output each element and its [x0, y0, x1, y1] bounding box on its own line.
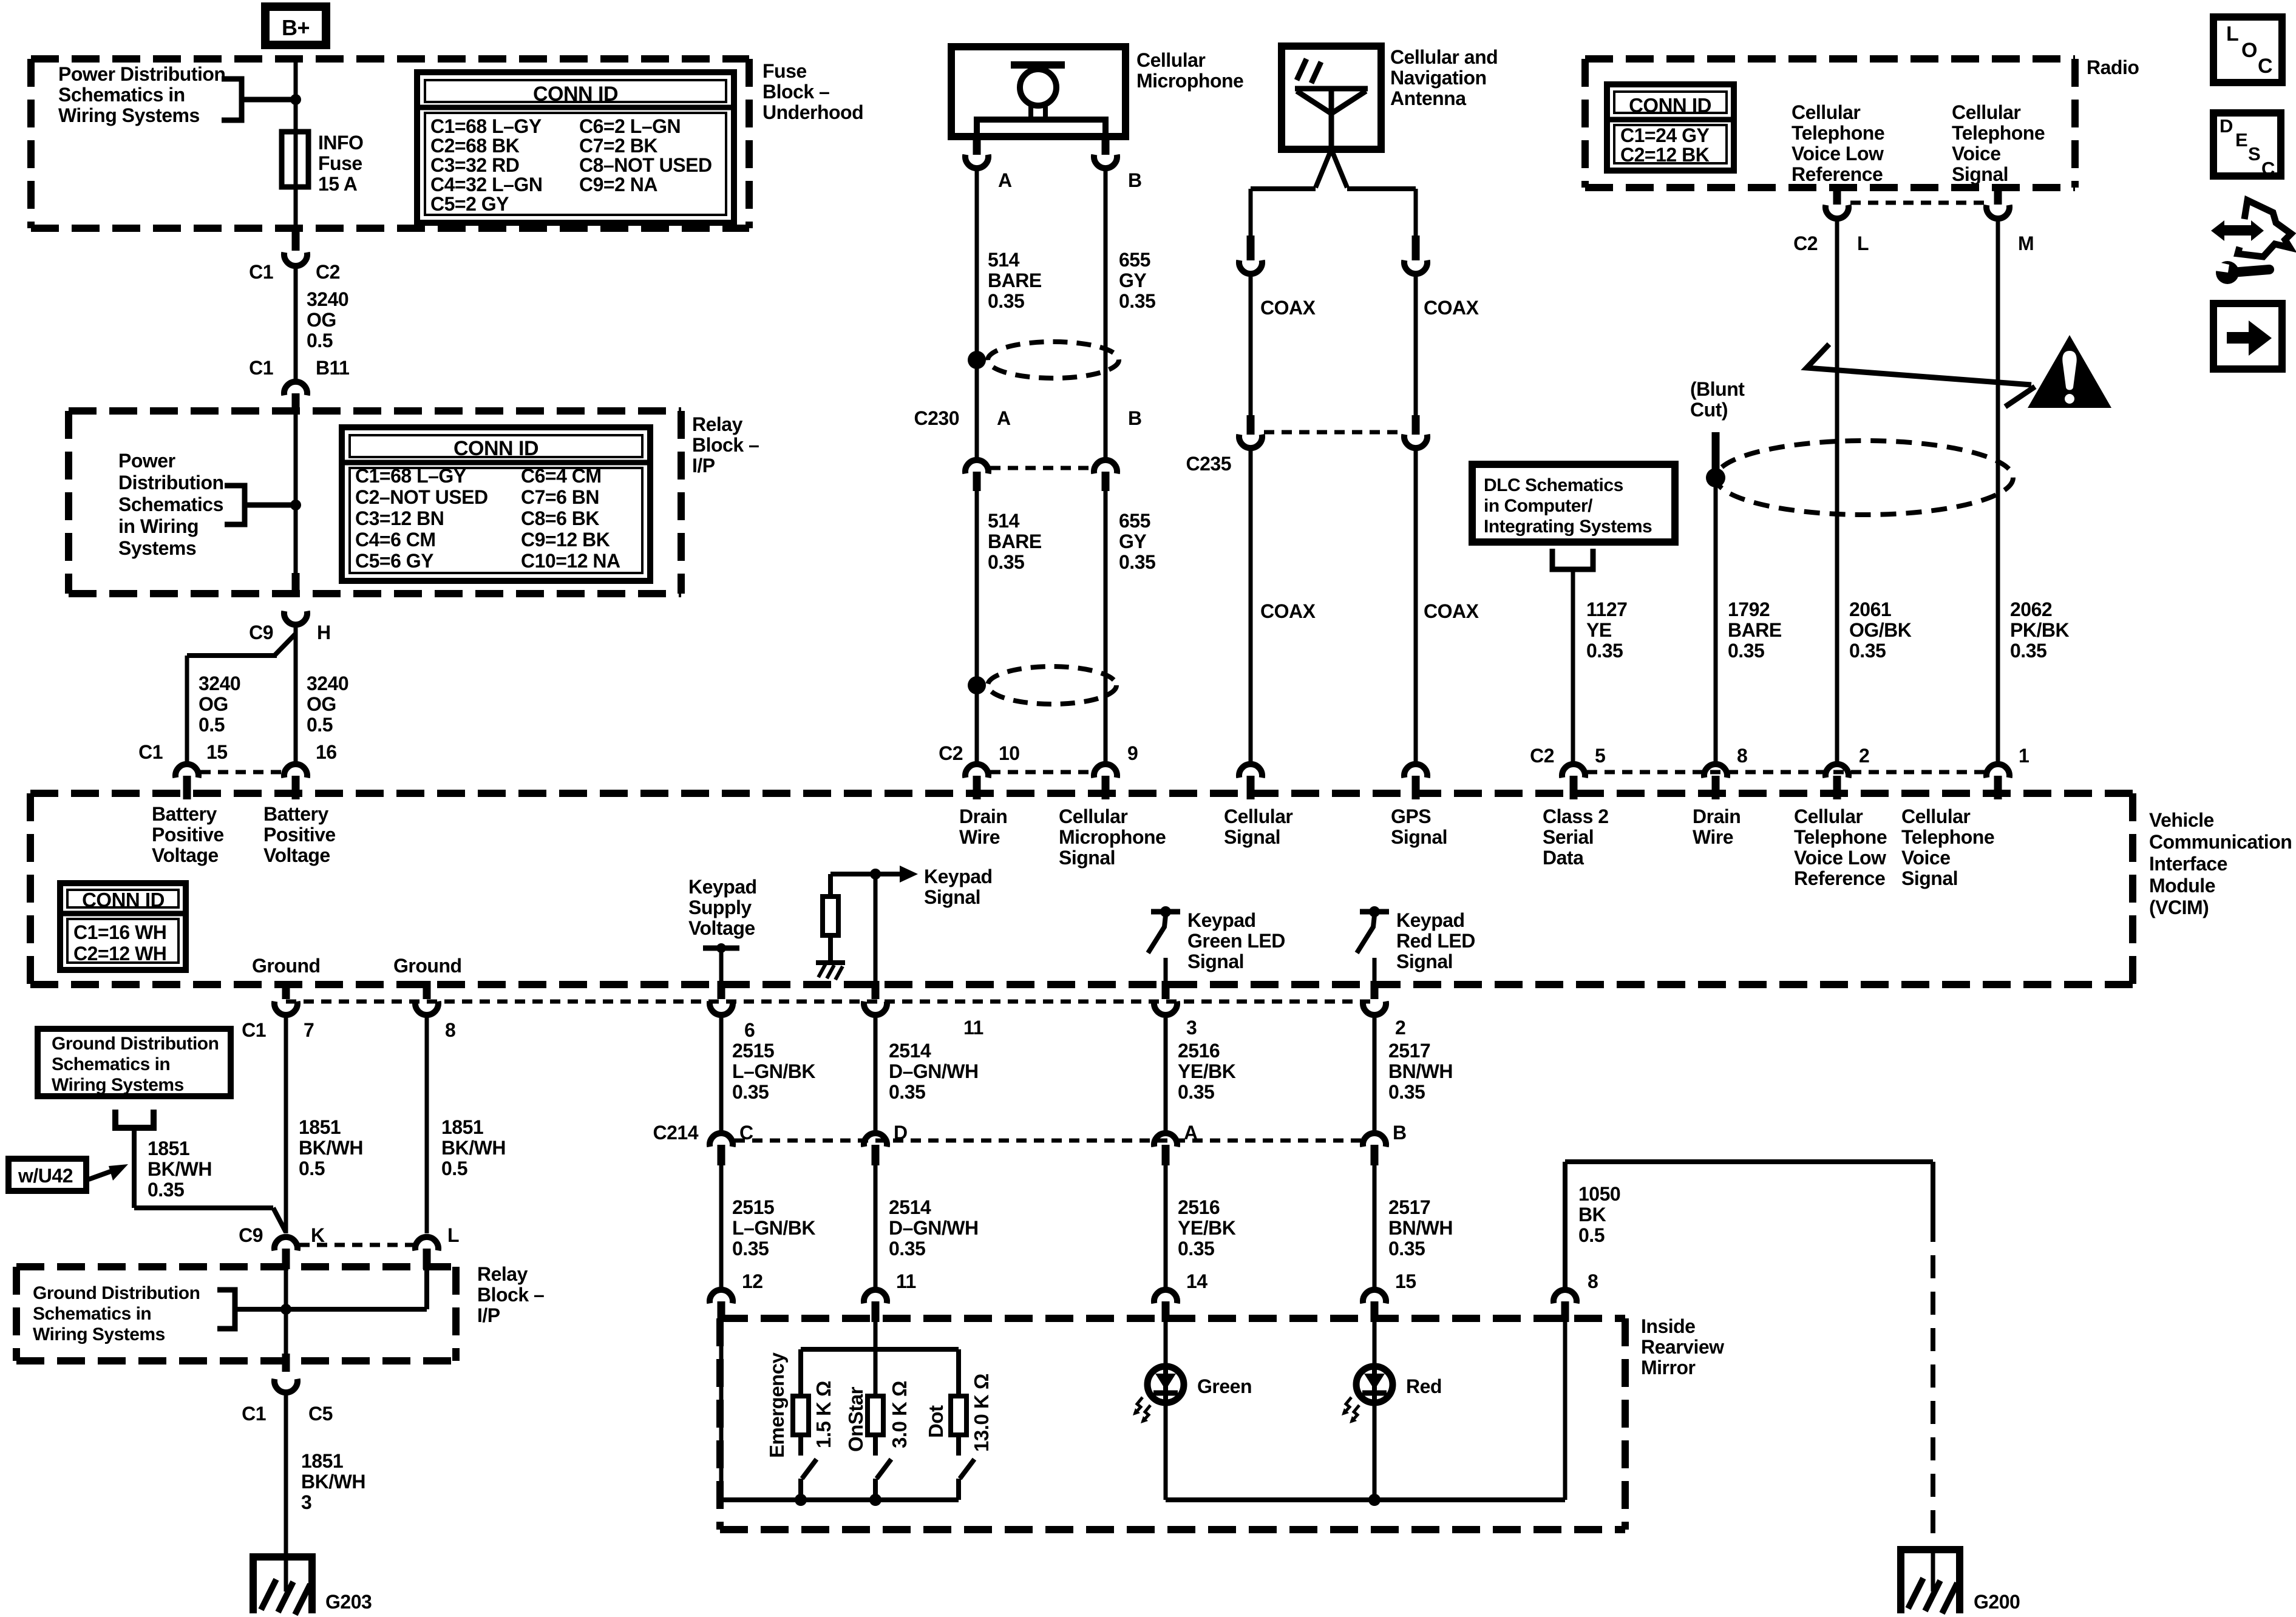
svg-text:Block –: Block – — [763, 81, 829, 103]
svg-text:OnStar: OnStar — [844, 1386, 867, 1452]
svg-text:Fuse: Fuse — [763, 60, 807, 82]
svg-text:Radio: Radio — [2087, 56, 2139, 78]
connector pin 7 VCIM — [282, 981, 290, 999]
svg-text:C2: C2 — [939, 742, 963, 764]
connector C235 gps — [1412, 415, 1420, 435]
wire 1792 BARE drain — [1714, 467, 1718, 765]
svg-text:Voltage: Voltage — [688, 917, 755, 939]
connector VCIM gps signal pin — [1404, 764, 1427, 778]
svg-text:CONN ID: CONN ID — [533, 83, 618, 106]
arrow w/U42 — [89, 1171, 110, 1179]
svg-text:1851: 1851 — [299, 1116, 341, 1138]
svg-text:C1=68 L–GY: C1=68 L–GY — [430, 115, 542, 137]
connector line C214 — [735, 1139, 1361, 1143]
svg-text:14: 14 — [1186, 1270, 1207, 1292]
svg-text:Signal: Signal — [1391, 826, 1447, 848]
svg-text:Red: Red — [1406, 1375, 1442, 1397]
switch S3 Dot — [956, 1435, 961, 1456]
svg-text:Voice Low: Voice Low — [1794, 847, 1886, 869]
keypad signal junction dot — [870, 869, 881, 880]
table CONN ID fuse block — [417, 72, 734, 223]
svg-text:Signal: Signal — [924, 886, 980, 908]
dashed box Relay Block - I/P lower — [16, 1263, 456, 1270]
wire cellular coax mid — [1249, 276, 1253, 418]
svg-text:Keypad: Keypad — [1396, 909, 1465, 931]
svg-text:C9: C9 — [239, 1224, 263, 1246]
svg-text:C1: C1 — [242, 1403, 266, 1425]
svg-text:Signal: Signal — [1952, 163, 2008, 185]
LED Red lamp — [1373, 1320, 1377, 1500]
svg-text:Cellular: Cellular — [1059, 805, 1127, 827]
svg-text:3.0 K Ω: 3.0 K Ω — [888, 1381, 911, 1448]
svg-text:C1: C1 — [249, 357, 273, 379]
svg-text:Power: Power — [118, 450, 175, 472]
svg-text:2: 2 — [1859, 745, 1869, 767]
svg-text:C4=32 L–GN: C4=32 L–GN — [430, 174, 542, 195]
microphone symbol — [1011, 61, 1065, 69]
svg-text:OG: OG — [199, 693, 228, 715]
svg-text:C9=2 NA: C9=2 NA — [579, 174, 657, 195]
svg-text:C4=6 CM: C4=6 CM — [355, 529, 436, 551]
svg-text:Signal: Signal — [1187, 951, 1244, 972]
box DLC Schematics in Computer/Integrating Systems — [1472, 464, 1675, 542]
connector line C1 bottom pins — [286, 1000, 1374, 1004]
svg-text:Telephone: Telephone — [1952, 122, 2045, 144]
inline connector gps coax — [1412, 236, 1420, 260]
junction dot Red LED rail — [1368, 1494, 1381, 1506]
bracket to wire — [222, 79, 242, 120]
svg-text:1: 1 — [2019, 745, 2029, 767]
warning triangle — [2028, 335, 2111, 408]
wire keypad Green LED signal — [1164, 958, 1168, 985]
svg-text:C1: C1 — [249, 261, 273, 283]
svg-text:in Computer/: in Computer/ — [1484, 496, 1593, 516]
svg-text:G200: G200 — [1974, 1591, 2020, 1613]
connector C9/K relay block — [274, 1237, 297, 1250]
connector pin 8 VCIM C2 drain — [1704, 764, 1727, 778]
connector pin 10 VCIM C2 — [965, 764, 988, 778]
svg-text:655: 655 — [1119, 510, 1150, 532]
svg-text:Green: Green — [1197, 1375, 1252, 1397]
svg-text:D: D — [2220, 115, 2233, 137]
svg-text:1792: 1792 — [1728, 598, 1770, 620]
resistor R2 3.0 K ohm OnStar — [868, 1396, 883, 1435]
svg-text:Power Distribution: Power Distribution — [58, 63, 225, 85]
dashed box Relay Block - I/P — [69, 407, 681, 415]
svg-text:Schematics in: Schematics in — [58, 84, 185, 106]
svg-text:C1: C1 — [138, 741, 163, 763]
svg-text:Vehicle: Vehicle — [2149, 809, 2214, 831]
svg-text:Integrating Systems: Integrating Systems — [1484, 517, 1652, 537]
svg-text:C1=16 WH: C1=16 WH — [73, 921, 166, 943]
svg-text:C6=2 L–GN: C6=2 L–GN — [579, 115, 681, 137]
svg-text:12: 12 — [742, 1270, 763, 1292]
svg-text:Navigation: Navigation — [1390, 67, 1487, 89]
svg-text:Relay: Relay — [477, 1263, 528, 1285]
svg-text:L: L — [2226, 22, 2238, 46]
keypad Green LED driver symbol — [1151, 909, 1180, 915]
svg-text:OG: OG — [307, 693, 336, 715]
svg-text:0.35: 0.35 — [889, 1081, 925, 1103]
svg-text:2516: 2516 — [1178, 1196, 1220, 1218]
svg-text:D–GN/WH: D–GN/WH — [889, 1060, 979, 1082]
svg-text:11: 11 — [963, 1017, 983, 1039]
svg-text:0.35: 0.35 — [148, 1179, 184, 1201]
svg-text:B: B — [1393, 1122, 1407, 1144]
svg-text:10: 10 — [999, 742, 1020, 764]
svg-text:0.35: 0.35 — [1586, 640, 1623, 662]
svg-text:Wire: Wire — [959, 826, 1000, 848]
connector C214 pin A — [1154, 1133, 1177, 1147]
connector line C235 — [1264, 430, 1402, 435]
svg-text:BN/WH: BN/WH — [1388, 1217, 1453, 1239]
svg-text:0.5: 0.5 — [199, 714, 225, 736]
svg-text:COAX: COAX — [1260, 297, 1316, 319]
LED Green light arrows — [1135, 1397, 1143, 1414]
svg-text:0.35: 0.35 — [889, 1238, 925, 1259]
svg-text:Inside: Inside — [1641, 1315, 1695, 1337]
svg-text:2514: 2514 — [889, 1196, 931, 1218]
svg-text:0.35: 0.35 — [988, 551, 1024, 573]
resistor R1 1.5 K ohm Emergency — [793, 1396, 809, 1435]
svg-text:YE: YE — [1586, 619, 1612, 641]
svg-text:3240: 3240 — [307, 288, 348, 310]
svg-text:Schematics: Schematics — [118, 493, 223, 515]
svg-text:Fuse: Fuse — [318, 152, 362, 174]
svg-text:COAX: COAX — [1424, 297, 1479, 319]
connector pin 6 VCIM — [718, 981, 725, 999]
junction dot ground tie — [280, 1304, 291, 1315]
svg-text:Cellular: Cellular — [1794, 805, 1863, 827]
wire 655 GY upper — [1104, 170, 1108, 460]
svg-text:C8=6 BK: C8=6 BK — [521, 507, 599, 529]
svg-text:Relay: Relay — [692, 413, 743, 435]
svg-text:2062: 2062 — [2010, 598, 2052, 620]
wire pin 7 to connector K — [284, 1018, 288, 1233]
antenna signal strokes — [1297, 59, 1306, 80]
svg-text:Voice: Voice — [1952, 143, 2001, 164]
svg-text:YE/BK: YE/BK — [1178, 1060, 1236, 1082]
svg-text:0.5: 0.5 — [1578, 1224, 1605, 1246]
svg-text:Module: Module — [2149, 875, 2215, 897]
svg-text:GY: GY — [1119, 531, 1146, 552]
wire ground distribution stem — [132, 1128, 137, 1208]
legend icon hand outline — [2238, 200, 2291, 257]
svg-text:655: 655 — [1119, 249, 1150, 271]
svg-text:Ground: Ground — [252, 955, 321, 977]
svg-text:Cellular: Cellular — [1901, 805, 1970, 827]
switch bottom rail — [721, 1497, 959, 1502]
switch S1 Emergency — [798, 1435, 803, 1456]
svg-text:C235: C235 — [1186, 453, 1232, 475]
legend box LOC — [2213, 17, 2282, 83]
svg-text:Signal: Signal — [1396, 951, 1453, 972]
legend icon double arrow — [2211, 220, 2224, 241]
svg-text:Schematics in: Schematics in — [33, 1304, 151, 1324]
connector line C2 pins 10-9 — [990, 770, 1092, 775]
svg-text:Microphone: Microphone — [1136, 70, 1243, 92]
svg-text:Positive: Positive — [263, 824, 336, 846]
svg-text:Class 2: Class 2 — [1543, 805, 1609, 827]
svg-text:Reference: Reference — [1794, 867, 1885, 889]
ground G203 — [250, 1553, 316, 1561]
svg-text:Systems: Systems — [118, 537, 196, 559]
svg-text:INFO: INFO — [318, 132, 363, 154]
connector mic pin A — [973, 137, 981, 155]
connector mirror pin 12 — [710, 1290, 733, 1303]
box w/U42 — [8, 1159, 86, 1191]
svg-text:D–GN/WH: D–GN/WH — [889, 1217, 979, 1239]
wire cellular coax lower — [1249, 450, 1253, 765]
connector line C1 pins 15-16 — [200, 770, 282, 775]
wire 514 BARE lower — [975, 491, 979, 765]
connector pin 3 VCIM — [1162, 981, 1170, 999]
wire H to pin 16 — [294, 626, 298, 765]
svg-text:Emergency: Emergency — [766, 1352, 788, 1458]
svg-text:Rearview: Rearview — [1641, 1336, 1724, 1358]
svg-text:COAX: COAX — [1260, 600, 1316, 622]
svg-text:C2: C2 — [1793, 232, 1818, 254]
svg-text:Communication: Communication — [2149, 831, 2292, 853]
B+ battery terminal — [265, 7, 326, 45]
svg-text:514: 514 — [988, 510, 1020, 532]
shield ellipse mic upper — [988, 342, 1119, 378]
svg-text:2514: 2514 — [889, 1040, 931, 1062]
svg-text:2: 2 — [1395, 1017, 1405, 1039]
svg-text:C: C — [739, 1122, 753, 1144]
svg-text:C2=12 WH: C2=12 WH — [73, 943, 166, 964]
svg-text:Signal: Signal — [1901, 867, 1958, 889]
svg-text:Battery: Battery — [152, 803, 217, 825]
svg-text:Cellular: Cellular — [1136, 49, 1205, 71]
svg-text:w/U42: w/U42 — [18, 1165, 73, 1187]
connector mirror pin 15 — [1363, 1290, 1386, 1303]
svg-text:2515: 2515 — [732, 1196, 774, 1218]
svg-text:CONN ID: CONN ID — [82, 889, 165, 911]
svg-text:Positive: Positive — [152, 824, 224, 846]
dashed box Inside Rearview Mirror — [720, 1315, 1625, 1322]
wire 2061 OG/BK — [1835, 220, 1839, 765]
svg-text:B: B — [1128, 169, 1142, 191]
svg-text:Wiring Systems: Wiring Systems — [52, 1075, 184, 1095]
wire break symbol — [1807, 344, 2031, 385]
svg-text:Cellular: Cellular — [1952, 101, 2020, 123]
svg-text:Keypad: Keypad — [924, 866, 993, 887]
shield drain dot mic lower — [968, 676, 986, 694]
svg-text:(Blunt: (Blunt — [1690, 378, 1745, 400]
svg-text:0.35: 0.35 — [2010, 640, 2046, 662]
wire mirror pin 11 to OnStar resistor — [874, 1320, 878, 1396]
connector C1/B11 into relay block — [284, 382, 307, 395]
LED bottom rail — [1166, 1497, 1565, 1502]
svg-text:C7=6 BN: C7=6 BN — [521, 486, 599, 508]
connector L relay block — [415, 1237, 438, 1250]
svg-text:L: L — [447, 1224, 459, 1246]
resistor keypad signal pulldown — [828, 874, 833, 897]
svg-text:I/P: I/P — [477, 1304, 500, 1326]
svg-text:Cellular: Cellular — [1224, 805, 1292, 827]
svg-text:BARE: BARE — [988, 269, 1042, 291]
wire pin 8 to connector L — [425, 1018, 429, 1233]
svg-text:C9: C9 — [249, 622, 273, 643]
svg-text:B: B — [1128, 407, 1142, 429]
svg-text:Ground: Ground — [393, 955, 462, 977]
svg-text:3: 3 — [301, 1491, 311, 1513]
connector C1/C5 relay block output — [282, 1354, 290, 1372]
svg-text:BARE: BARE — [1728, 619, 1782, 641]
legend box arrow — [2213, 303, 2282, 369]
fuse F1 INFO 15A — [282, 132, 308, 187]
svg-text:C2: C2 — [1530, 745, 1554, 767]
keypad Red LED driver symbol — [1360, 909, 1389, 915]
svg-text:5: 5 — [1595, 745, 1605, 767]
svg-text:(VCIM): (VCIM) — [2149, 897, 2209, 918]
shield drain dot radio harness — [1706, 468, 1725, 487]
svg-text:A: A — [998, 169, 1012, 191]
keypad signal arrow — [830, 872, 901, 876]
connector line K-L — [299, 1243, 413, 1247]
shield ellipse mic lower — [988, 666, 1116, 704]
connector line C2 pins 5-1 — [1587, 770, 1986, 775]
svg-text:C2: C2 — [316, 261, 340, 283]
connector line C230 — [990, 466, 1092, 470]
svg-text:CONN ID: CONN ID — [1629, 94, 1711, 117]
svg-text:A: A — [997, 407, 1011, 429]
svg-text:15: 15 — [1395, 1270, 1416, 1292]
connector pin 11 VCIM — [872, 981, 880, 999]
connector pin 15 VCIM C1 — [175, 764, 199, 778]
bracket under DLC box — [1552, 549, 1593, 569]
svg-text:0.35: 0.35 — [732, 1238, 769, 1259]
svg-text:1050: 1050 — [1578, 1183, 1620, 1205]
svg-text:PK/BK: PK/BK — [2010, 619, 2069, 641]
svg-text:C1: C1 — [242, 1019, 266, 1041]
LED Red light arrows — [1343, 1397, 1351, 1414]
svg-text:8: 8 — [1737, 745, 1747, 767]
connector pin 8 VCIM — [423, 981, 431, 999]
svg-text:BK/WH: BK/WH — [441, 1137, 506, 1159]
svg-text:Schematics in: Schematics in — [52, 1054, 170, 1074]
connector C230 pin B — [1094, 460, 1117, 473]
connector pin 9 VCIM C2 — [1094, 764, 1117, 778]
svg-text:D: D — [894, 1122, 908, 1144]
dashed box Vehicle Communication Interface Module VCIM — [30, 790, 2133, 797]
connector VCIM cellular signal pin — [1239, 764, 1262, 778]
svg-text:15: 15 — [206, 741, 228, 763]
svg-text:Telephone: Telephone — [1901, 826, 1994, 848]
svg-text:2517: 2517 — [1388, 1196, 1430, 1218]
svg-text:6: 6 — [744, 1019, 755, 1041]
svg-text:L–GN/BK: L–GN/BK — [732, 1217, 815, 1239]
svg-text:CONN ID: CONN ID — [453, 437, 538, 460]
svg-text:Voice: Voice — [1901, 847, 1951, 869]
svg-text:C1=24 GY: C1=24 GY — [1620, 124, 1709, 146]
svg-text:Green LED: Green LED — [1187, 930, 1285, 952]
svg-text:2061: 2061 — [1849, 598, 1891, 620]
junction dot relay block wire — [290, 500, 301, 510]
svg-text:C: C — [2261, 158, 2275, 179]
wire gps coax upper — [1414, 189, 1418, 238]
svg-text:C: C — [2258, 55, 2272, 78]
svg-text:0.35: 0.35 — [1728, 640, 1764, 662]
svg-text:0.5: 0.5 — [307, 714, 333, 736]
svg-text:0.5: 0.5 — [299, 1158, 325, 1179]
resistor R3 13.0 K ohm Dot — [951, 1396, 966, 1435]
svg-text:A: A — [1184, 1122, 1198, 1144]
wire keypad Red LED signal — [1373, 958, 1377, 985]
wire mirror pin 12 to switch rail — [719, 1320, 724, 1500]
svg-text:0.35: 0.35 — [1388, 1238, 1425, 1259]
wire 3240 OG — [294, 268, 298, 382]
svg-text:514: 514 — [988, 249, 1020, 271]
svg-text:0.35: 0.35 — [1178, 1081, 1214, 1103]
svg-text:L: L — [1857, 232, 1869, 254]
ground G200 — [1897, 1546, 1963, 1553]
connector pin 2 VCIM C2 voice low ref — [1826, 764, 1849, 778]
connector pin 1 VCIM C2 voice signal — [1986, 764, 2009, 778]
svg-text:B11: B11 — [316, 357, 349, 379]
svg-text:3240: 3240 — [199, 673, 240, 694]
svg-text:2516: 2516 — [1178, 1040, 1220, 1062]
svg-text:Microphone: Microphone — [1059, 826, 1166, 848]
connector mirror pin 11 — [864, 1290, 887, 1303]
svg-text:0.5: 0.5 — [441, 1158, 467, 1179]
svg-text:C214: C214 — [653, 1122, 699, 1144]
dashed box Radio — [1585, 55, 2075, 63]
svg-text:Supply: Supply — [688, 897, 752, 918]
svg-text:Telephone: Telephone — [1794, 826, 1887, 848]
svg-text:O: O — [2241, 39, 2257, 62]
blunt cut wire end — [1712, 432, 1720, 469]
connector pin 5 VCIM C2 — [1562, 764, 1585, 778]
svg-text:BARE: BARE — [988, 531, 1042, 552]
svg-text:C2=68 BK: C2=68 BK — [430, 135, 520, 157]
svg-text:OG: OG — [307, 309, 336, 331]
connector line radio C2 — [1850, 201, 1985, 205]
wire cellular coax upper — [1249, 189, 1253, 238]
antenna feed split — [1316, 149, 1331, 188]
svg-text:C3=32 RD: C3=32 RD — [430, 154, 519, 176]
svg-text:Wiring Systems: Wiring Systems — [58, 104, 200, 126]
connector C9/H relay block output — [284, 611, 307, 625]
svg-text:YE/BK: YE/BK — [1178, 1217, 1236, 1239]
wire branch to pin 15 — [274, 634, 296, 656]
svg-text:C230: C230 — [914, 407, 960, 429]
svg-text:9: 9 — [1127, 742, 1138, 764]
wire gps coax mid — [1414, 276, 1418, 418]
svg-text:Dot: Dot — [925, 1405, 947, 1438]
wire keypad signal to pin 11 — [874, 874, 878, 985]
svg-text:7: 7 — [304, 1019, 314, 1041]
svg-text:G203: G203 — [325, 1591, 372, 1613]
svg-text:15 A: 15 A — [318, 173, 358, 195]
svg-text:E: E — [2235, 129, 2247, 151]
svg-text:0.5: 0.5 — [307, 330, 333, 351]
svg-text:Reference: Reference — [1792, 163, 1883, 185]
svg-text:DLC Schematics: DLC Schematics — [1484, 475, 1623, 495]
connector C1/C2 fuse block output — [292, 228, 300, 251]
svg-text:C2=12 BK: C2=12 BK — [1620, 144, 1710, 166]
svg-text:Wiring Systems: Wiring Systems — [33, 1324, 165, 1344]
svg-text:M: M — [2018, 232, 2034, 254]
connector C235 cellular — [1247, 415, 1255, 435]
table CONN ID radio — [1607, 84, 1734, 171]
dashed drop wire to G200 — [1931, 1219, 1935, 1551]
svg-text:C10=12 NA: C10=12 NA — [521, 550, 620, 572]
wire 1127 YE class 2 serial data — [1571, 569, 1575, 765]
svg-text:2517: 2517 — [1388, 1040, 1430, 1062]
wire 2062 PK/BK — [1996, 220, 2000, 765]
